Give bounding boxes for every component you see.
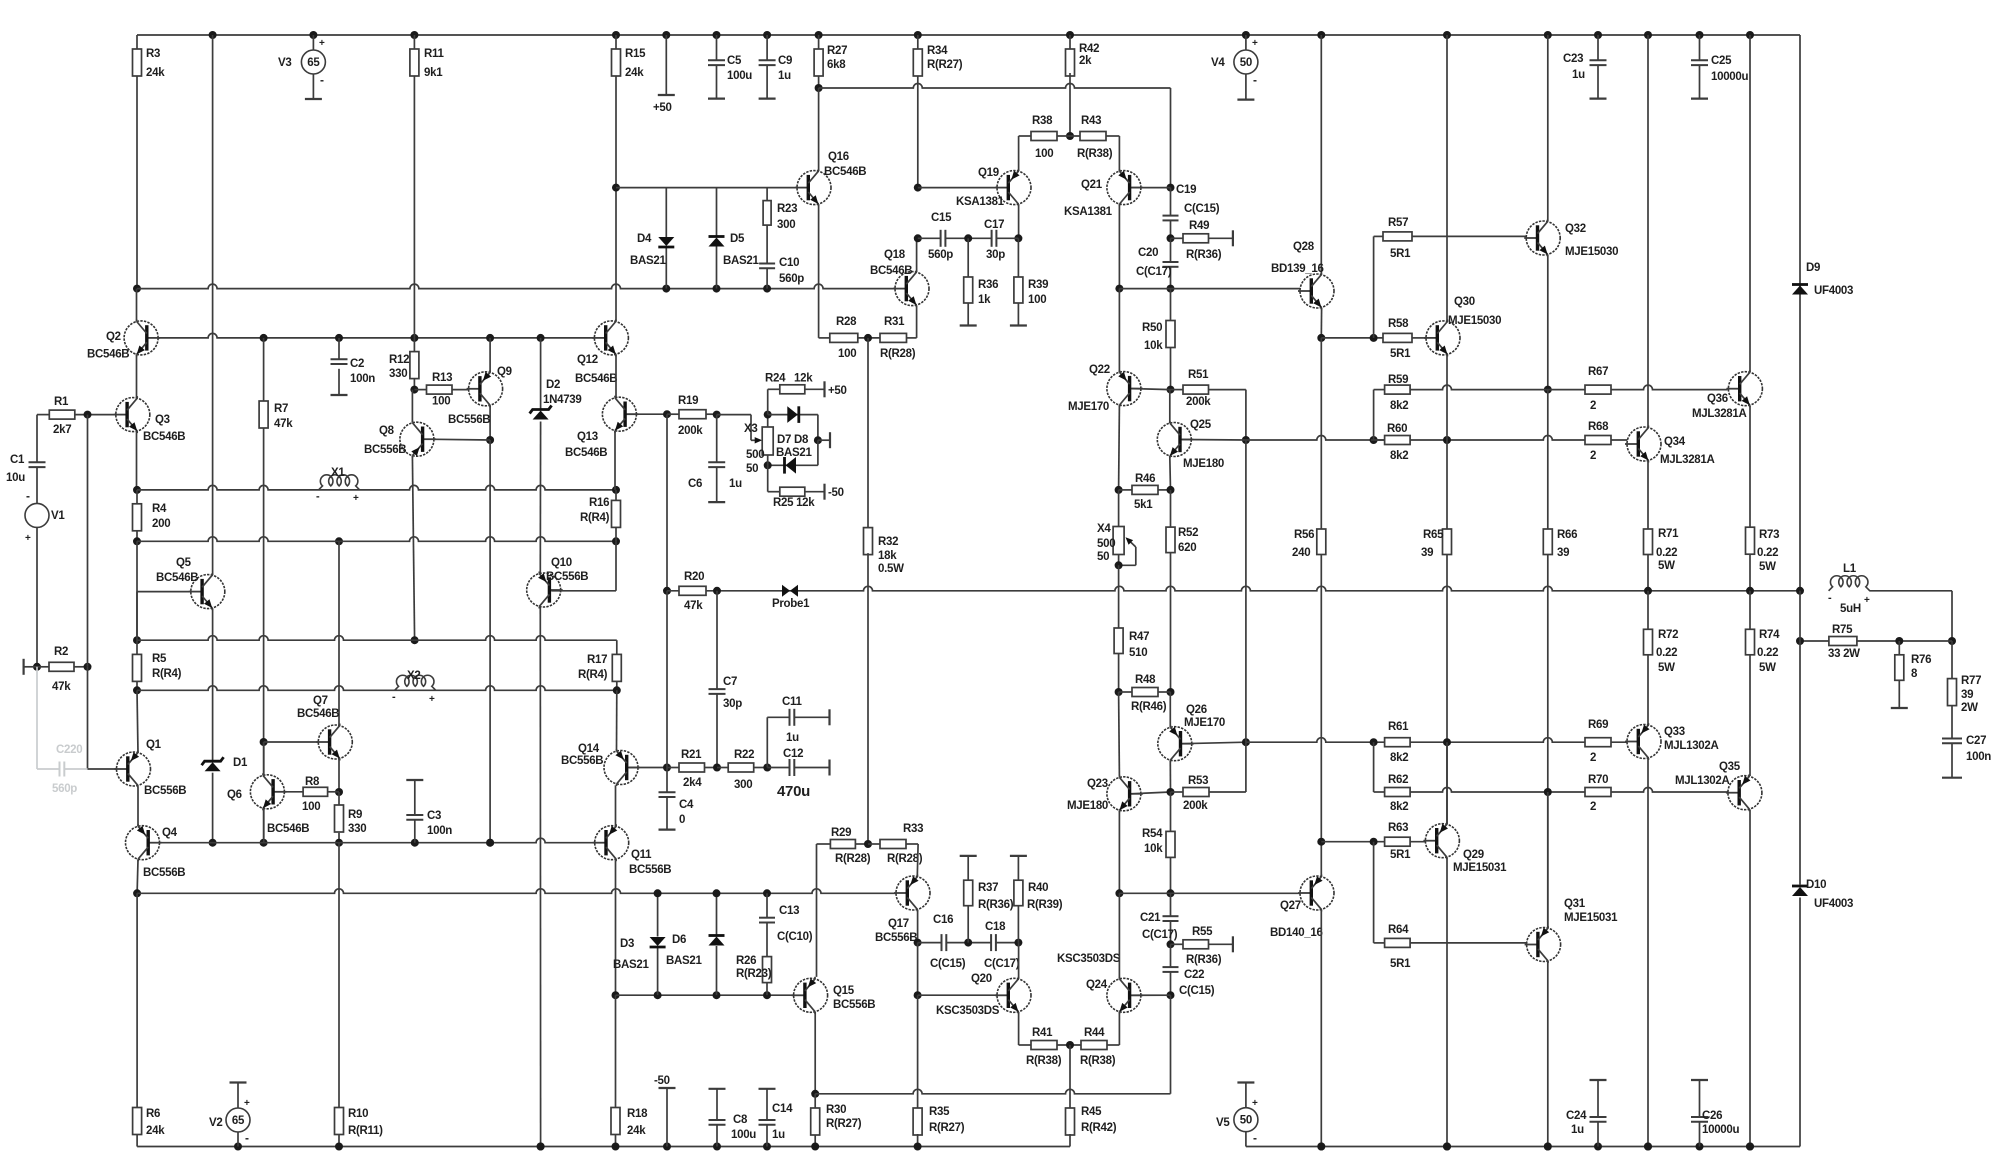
svg-text:-50: -50 [828, 487, 844, 499]
junction on right bottom rail [1544, 1143, 1552, 1151]
wire R34 bottom [917, 76, 919, 188]
svg-text:R(R46): R(R46) [1131, 701, 1167, 713]
svg-text:BC556B: BC556B [546, 571, 588, 583]
svg-text:R65: R65 [1423, 529, 1444, 541]
junction on top rail [1443, 31, 1451, 39]
svg-text:R33: R33 [903, 823, 923, 835]
transistor Q4 [126, 826, 160, 860]
svg-text:R28: R28 [836, 316, 857, 328]
svg-text:Q14: Q14 [578, 743, 600, 755]
wire R6 bottom to -rail [136, 1134, 138, 1147]
svg-text:-: - [320, 73, 324, 87]
resistor R19 [667, 413, 679, 415]
junction on right bottom rail [1594, 1143, 1602, 1151]
voltage source V3 [301, 50, 325, 74]
junction on top rail [209, 31, 217, 39]
svg-text:-: - [1253, 73, 1257, 87]
svg-text:BC556B: BC556B [875, 932, 917, 944]
resistor R35 [913, 1108, 922, 1135]
svg-text:R47: R47 [1129, 631, 1149, 643]
svg-text:MJE15030: MJE15030 [1565, 246, 1618, 258]
svg-text:Probe1: Probe1 [772, 598, 810, 610]
svg-text:12k: 12k [794, 373, 813, 385]
resistor R38 [1031, 132, 1057, 141]
svg-text:Q15: Q15 [833, 985, 855, 997]
resistor R67 [1585, 385, 1611, 394]
svg-text:BC556B: BC556B [448, 414, 490, 426]
wire x490 down to Q4 base line [489, 440, 491, 843]
wire Q7 emitter to R9 [338, 759, 340, 792]
wire Q13 base line [627, 413, 667, 415]
terminal bar C3 top [406, 779, 423, 781]
wire R24 right to +50 [805, 388, 825, 390]
svg-text:0.22: 0.22 [1757, 647, 1778, 659]
wire x88 down to Q1 base [87, 667, 89, 769]
svg-text:BC556B: BC556B [629, 864, 671, 876]
svg-text:300: 300 [734, 779, 752, 791]
svg-text:R52: R52 [1178, 527, 1198, 539]
svg-text:5W: 5W [1658, 662, 1675, 674]
wire R59 line to Q36 [1410, 385, 1728, 390]
svg-text:Q17: Q17 [888, 918, 909, 930]
junction [260, 839, 268, 847]
junction [335, 334, 343, 342]
junction [1066, 1041, 1074, 1049]
capacitor C27 [1942, 738, 1962, 740]
svg-text:8k2: 8k2 [1390, 400, 1408, 412]
svg-text:R(R38): R(R38) [1077, 148, 1113, 160]
wire R75 right [1857, 640, 1952, 642]
wire R23-C10 [766, 225, 768, 263]
wire R75 line [1800, 640, 1829, 642]
svg-text:Q3: Q3 [155, 414, 170, 426]
junction [133, 889, 141, 897]
svg-text:2: 2 [1590, 400, 1596, 412]
wire R65 chain [1446, 440, 1448, 529]
svg-text:+: + [1252, 38, 1258, 49]
svg-text:500: 500 [746, 449, 764, 461]
resistor R34 [917, 35, 919, 49]
junction [260, 738, 268, 746]
wire Q6 emitter [263, 808, 265, 842]
svg-text:-: - [245, 1131, 249, 1145]
resistor R47 [1114, 628, 1123, 654]
wire bias line y893 [137, 889, 896, 894]
svg-text:R11: R11 [424, 48, 444, 60]
junction on top rail [1242, 31, 1250, 39]
resistor R29 [817, 843, 831, 845]
junction [612, 184, 620, 192]
wire X3 wiper path [717, 414, 751, 416]
svg-text:R18: R18 [627, 1108, 648, 1120]
transistor Q28 [1300, 274, 1334, 308]
wire x339 to Q7 collector [338, 541, 340, 725]
wire Q4 base line y843 [150, 838, 606, 842]
svg-text:Q9: Q9 [497, 366, 512, 378]
svg-text:C(C17): C(C17) [984, 958, 1020, 970]
svg-text:Q21: Q21 [1081, 179, 1103, 191]
svg-text:MJL3281A: MJL3281A [1660, 454, 1715, 466]
svg-text:100n: 100n [1966, 751, 1991, 763]
wire R5 top lead [136, 640, 138, 654]
transistor Q20 [997, 978, 1031, 1012]
wire D7 corner [817, 415, 819, 441]
junction on left bottom rail [914, 1143, 922, 1151]
capacitor C18 [990, 934, 992, 951]
svg-text:KSA1381: KSA1381 [956, 196, 1005, 208]
resistor R62 [1385, 788, 1411, 797]
wire Q17-emitter chain to Q20 base node [917, 943, 919, 996]
svg-text:KSA1381: KSA1381 [1064, 206, 1113, 218]
wire Q19 base line [918, 187, 998, 189]
svg-text:R37: R37 [978, 882, 998, 894]
junction [763, 285, 771, 293]
transistor Q19 [997, 171, 1031, 205]
wire Q24 base [1132, 994, 1171, 996]
junction [1115, 889, 1123, 897]
svg-text:47k: 47k [684, 600, 703, 612]
svg-text:MJL1302A: MJL1302A [1664, 740, 1719, 752]
svg-text:UF4003: UF4003 [1814, 898, 1853, 910]
wire R70 to Q35 [1611, 788, 1728, 793]
svg-text:560p: 560p [52, 783, 77, 795]
wire Q22 collector [1118, 289, 1120, 372]
svg-text:D6: D6 [672, 934, 686, 946]
transistor Q13 [602, 397, 636, 431]
junction [1370, 436, 1378, 444]
resistor R6 [133, 1108, 142, 1135]
svg-text:C11: C11 [782, 696, 802, 708]
transistor Q36 [1728, 372, 1762, 406]
svg-text:330: 330 [348, 823, 366, 835]
resistor R12 [410, 352, 419, 379]
junction on top rail [763, 31, 771, 39]
junction [1370, 738, 1378, 746]
wire R32 bottom to R29 node [867, 553, 869, 844]
svg-text:C15: C15 [931, 212, 952, 224]
diode D6 [709, 937, 725, 946]
svg-text:10000u: 10000u [1711, 71, 1748, 83]
transistor Q10 [527, 573, 561, 607]
junction [612, 537, 620, 545]
wire Q15 base line [616, 994, 795, 996]
junction [1014, 939, 1022, 947]
terminal bar -50 (X3) [823, 484, 825, 500]
wire R58 line [1321, 337, 1383, 339]
probe Probe1 [782, 585, 790, 597]
resistor R9 [335, 805, 344, 832]
svg-text:0.22: 0.22 [1656, 647, 1677, 659]
wire R26 bottom [766, 983, 768, 996]
wire C16-C18 [946, 942, 968, 944]
junction [1544, 386, 1552, 394]
svg-text:100u: 100u [727, 70, 752, 82]
junction [1167, 386, 1175, 394]
svg-text:0.5W: 0.5W [878, 563, 904, 575]
svg-text:C1: C1 [10, 454, 25, 466]
junction [1544, 1143, 1552, 1151]
wire Q26 emitter [1169, 692, 1171, 727]
svg-text:560p: 560p [928, 249, 953, 261]
svg-text:R(R28): R(R28) [880, 348, 916, 360]
wire R64 to Q31 [1410, 942, 1528, 944]
svg-text:R17: R17 [587, 654, 607, 666]
junction [1746, 587, 1754, 595]
wire Q27 collector down [1320, 910, 1322, 1147]
svg-text:R8: R8 [305, 776, 320, 788]
wire R11 bottom [413, 76, 415, 338]
svg-text:Q32: Q32 [1565, 223, 1586, 235]
svg-text:D7 D8: D7 D8 [777, 434, 809, 446]
svg-text:R64: R64 [1388, 924, 1409, 936]
svg-text:BC556B: BC556B [561, 755, 603, 767]
pot X4 wiper [1135, 547, 1137, 565]
resistor R36 [964, 277, 973, 303]
svg-text:V4: V4 [1211, 57, 1225, 69]
wire R57 to Q32 base [1412, 235, 1527, 237]
wire C18 right [996, 942, 1019, 944]
resistor R59 [1385, 385, 1411, 394]
resistor R73 [1746, 527, 1755, 554]
wire X3 bottom [767, 455, 769, 492]
wire Q36 collector [1749, 35, 1751, 372]
svg-text:Q27: Q27 [1280, 900, 1301, 912]
resistor R20 [679, 586, 706, 595]
junction [1443, 738, 1451, 746]
svg-text:2: 2 [1590, 450, 1596, 462]
junction on top rail [1644, 31, 1652, 39]
wire R31 right [907, 337, 917, 339]
svg-text:R58: R58 [1388, 318, 1409, 330]
capacitor C3 [406, 814, 423, 816]
svg-text:R55: R55 [1192, 926, 1213, 938]
wire R36 leads [967, 238, 969, 277]
transistor Q26 [1158, 727, 1192, 761]
wire R18 bottom [615, 1134, 617, 1147]
junction [864, 334, 872, 342]
svg-text:C9: C9 [778, 55, 792, 67]
junction [1796, 637, 1804, 645]
wire R28-R31 [858, 337, 880, 339]
svg-text:R6: R6 [146, 1108, 160, 1120]
transistor Q33 [1627, 725, 1661, 759]
transistor Q11 [595, 826, 629, 860]
wire R50 leads [1170, 289, 1172, 321]
svg-text:+50: +50 [828, 385, 847, 397]
svg-text:R(R4): R(R4) [152, 668, 182, 680]
junction [713, 889, 721, 897]
svg-text:BD139_16: BD139_16 [1271, 263, 1324, 275]
svg-text:R54: R54 [1142, 828, 1163, 840]
junction [1167, 486, 1175, 494]
junction [1544, 788, 1552, 796]
svg-text:BC546B: BC546B [297, 708, 339, 720]
junction [764, 411, 772, 419]
svg-text:2k: 2k [1079, 55, 1092, 67]
wire output line [667, 586, 1800, 590]
wire -50 rail left [137, 1146, 1070, 1148]
svg-text:Q35: Q35 [1719, 761, 1741, 773]
voltage source V4 [1234, 50, 1258, 74]
svg-text:R(R4): R(R4) [580, 512, 610, 524]
junction [411, 636, 419, 644]
wire bar lead [818, 439, 830, 441]
junction on left bottom rail [663, 1143, 671, 1151]
svg-text:D5: D5 [730, 233, 745, 245]
svg-text:BD140_16: BD140_16 [1270, 927, 1323, 939]
capacitor C26 [1699, 1080, 1701, 1117]
junction [335, 788, 343, 796]
resistor R2 [49, 662, 74, 671]
svg-text:R(R38): R(R38) [1080, 1055, 1116, 1067]
wire V3 top lead [312, 35, 314, 50]
junction [1895, 637, 1903, 645]
svg-text:10000u: 10000u [1702, 1124, 1739, 1136]
wire Q29 emitter down [1446, 858, 1448, 1147]
resistor R16 [612, 500, 621, 527]
transistor Q5 [191, 575, 225, 609]
wire R45 bottom [1069, 1134, 1071, 1147]
terminal bar C11 [828, 709, 830, 725]
svg-text:C27: C27 [1966, 735, 1986, 747]
svg-text:BC556B: BC556B [364, 444, 406, 456]
junction [763, 889, 771, 897]
svg-text:R(R38): R(R38) [1026, 1055, 1062, 1067]
wire R44 right to Q24 [1107, 1044, 1119, 1046]
svg-text:50: 50 [1097, 551, 1109, 563]
junction [1746, 1143, 1754, 1151]
junction on top rail [815, 31, 823, 39]
inductor L1 [1829, 576, 1870, 591]
wire R38-R43 [1057, 135, 1080, 137]
wire top rail left drop to R3 [136, 35, 138, 49]
capacitor C20 [1170, 238, 1172, 262]
svg-text:620: 620 [1178, 542, 1196, 554]
capacitor C220 (disabled) [59, 762, 61, 777]
wire C15-C17 [945, 237, 968, 239]
svg-text:Q10: Q10 [551, 557, 572, 569]
wire R5 bottom lead [136, 682, 138, 691]
transistor Q12 [594, 321, 628, 355]
svg-text:6k8: 6k8 [827, 59, 846, 71]
wire Q30 emitter down [1446, 355, 1448, 440]
wire Q8 base line [425, 438, 490, 441]
svg-text:-: - [26, 489, 30, 503]
wire Q16 collector [818, 88, 820, 171]
svg-text:2: 2 [1590, 801, 1596, 813]
svg-text:C(C15): C(C15) [1184, 203, 1220, 215]
wire bias line y289 [137, 284, 896, 288]
svg-text:50: 50 [746, 463, 758, 475]
wire Q10 emitter down [539, 607, 541, 1147]
wire Q22 base [1132, 389, 1171, 390]
wire Q34 collector [1647, 35, 1649, 428]
resistor R48 [1119, 691, 1132, 693]
svg-text:C(C17): C(C17) [1136, 266, 1172, 278]
svg-text:R(R36): R(R36) [978, 899, 1014, 911]
junction on right bottom rail [1696, 1143, 1704, 1151]
resistor R31 [880, 333, 907, 342]
resistor R22 [717, 767, 728, 769]
svg-text:C220: C220 [56, 744, 82, 756]
svg-text:100: 100 [1035, 148, 1053, 160]
terminal bar R40 [1010, 855, 1027, 857]
wire Q31 emitter down [1547, 962, 1549, 1147]
svg-text:Q23: Q23 [1087, 778, 1108, 790]
junction [1014, 234, 1022, 242]
junction on left bottom rail [537, 1143, 545, 1151]
wire V2 bottom lead [237, 1132, 239, 1147]
svg-text:R43: R43 [1081, 115, 1101, 127]
resistor R37 [964, 880, 973, 906]
svg-text:BC546B: BC546B [156, 572, 198, 584]
wire C22 [1170, 944, 1172, 967]
potentiometer X4 [1118, 490, 1120, 527]
resistor R55 [1171, 943, 1184, 945]
svg-text:BAS21: BAS21 [666, 955, 702, 967]
wire y1094 line [815, 1089, 1170, 1094]
wire X3 top to R24 [767, 415, 769, 427]
junction [1167, 688, 1175, 696]
capacitor C4 [659, 791, 676, 793]
svg-text:300: 300 [777, 219, 795, 231]
zener diode D1 [205, 762, 221, 771]
ground bar V4 [1237, 98, 1254, 100]
svg-text:BC546B: BC546B [575, 373, 617, 385]
transistor Q22 [1107, 372, 1141, 406]
wire D5 leads [716, 188, 718, 237]
svg-text:R31: R31 [884, 316, 905, 328]
wire R1 right to Q3 base [75, 414, 116, 416]
transistor Q3 [116, 398, 150, 432]
svg-text:R25 12k: R25 12k [773, 497, 815, 509]
svg-text:R73: R73 [1759, 529, 1779, 541]
wire C2 bottom lead [338, 369, 340, 395]
junction [654, 889, 662, 897]
svg-text:1u: 1u [1571, 1124, 1584, 1136]
wire V4 bottom lead [1245, 74, 1247, 100]
transistor Q27 [1300, 876, 1334, 910]
svg-text:5R1: 5R1 [1390, 248, 1411, 260]
svg-text:R71: R71 [1658, 528, 1679, 540]
wire x918 down [917, 995, 919, 1108]
resistor R69 [1585, 738, 1611, 747]
svg-text:R35: R35 [929, 1106, 950, 1118]
svg-text:R67: R67 [1588, 366, 1608, 378]
wire C12 left lead [767, 767, 789, 769]
svg-text:8k2: 8k2 [1390, 801, 1408, 813]
svg-text:R57: R57 [1388, 217, 1408, 229]
junction [764, 461, 772, 469]
transistor Q25 [1157, 423, 1191, 457]
svg-text:33 2W: 33 2W [1828, 648, 1860, 660]
wire Q32 emitter down [1547, 255, 1549, 390]
svg-text:R76: R76 [1911, 654, 1931, 666]
junction [410, 334, 418, 342]
resistor R57 [1383, 232, 1412, 241]
svg-text:R(R42): R(R42) [1081, 1122, 1117, 1134]
resistor R65 [1443, 529, 1452, 555]
svg-text:R69: R69 [1588, 719, 1608, 731]
svg-text:65: 65 [232, 1115, 245, 1127]
capacitor C2 [331, 358, 348, 360]
svg-text:C2: C2 [350, 358, 364, 370]
wire R7 bottom lead [263, 428, 265, 742]
svg-text:39: 39 [1961, 689, 1973, 701]
junction [1115, 561, 1123, 569]
junction [133, 636, 141, 644]
junction [914, 184, 922, 192]
